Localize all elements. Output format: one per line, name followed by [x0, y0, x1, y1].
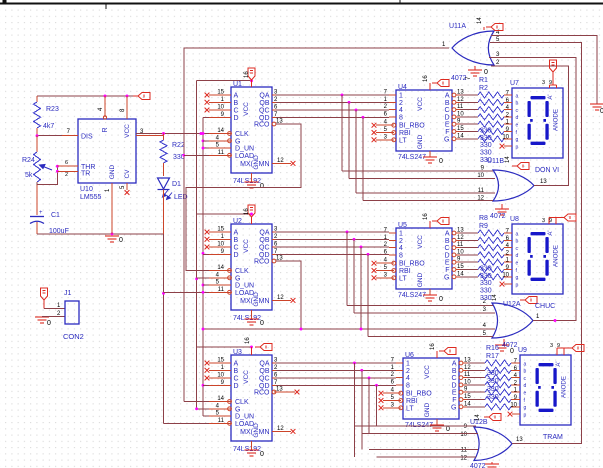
wire VCC to U2 pin16	[197, 213, 252, 215]
svg-text:G: G	[235, 275, 240, 282]
svg-text:QC: QC	[259, 376, 270, 383]
wire U12B input 11	[369, 449, 478, 451]
svg-text:0: 0	[47, 320, 51, 327]
svg-text:RCO: RCO	[254, 122, 270, 129]
ground U11B with 4072 label	[490, 204, 509, 220]
svg-text:11: 11	[218, 150, 225, 156]
svg-text:R: R	[102, 127, 109, 132]
svg-text:4: 4	[406, 375, 410, 382]
resistor R6 row 6	[460, 129, 512, 135]
wire U12B output 13 to U11A in4	[490, 43, 581, 444]
svg-text:D: D	[234, 252, 239, 259]
resistor R18 row 3	[467, 375, 520, 381]
wire CLK U3 from bus	[184, 401, 209, 403]
svg-text:U5: U5	[398, 222, 407, 229]
junction U11A net at LOAD U1	[182, 154, 185, 157]
svg-text:d: d	[516, 253, 519, 259]
wire U1 QD to U4	[276, 116, 389, 118]
power flag U5 pin16	[423, 213, 449, 228]
svg-text:C1: C1	[51, 212, 60, 219]
svg-text:3: 3	[550, 343, 553, 349]
power flag U2	[244, 205, 255, 224]
svg-text:15: 15	[217, 358, 224, 364]
svg-text:CHUC: CHUC	[535, 303, 555, 310]
wire 555 OUT to CLK U1	[136, 133, 209, 135]
svg-text:VCC: VCC	[124, 124, 131, 138]
svg-text:0: 0	[439, 158, 443, 165]
junction VCC U1	[250, 79, 253, 82]
svg-text:D: D	[444, 114, 449, 121]
svg-text:D: D	[234, 383, 239, 390]
svg-text:LOAD: LOAD	[235, 153, 254, 160]
svg-text:e: e	[516, 261, 519, 267]
svg-text:3: 3	[542, 218, 545, 224]
svg-text:B: B	[445, 100, 450, 107]
label U1 74LS192	[233, 178, 261, 185]
power flag U6 pin16	[430, 343, 456, 358]
svg-text:14: 14	[477, 17, 483, 24]
junction LOAD net at U2	[162, 292, 165, 295]
svg-text:D: D	[451, 382, 456, 389]
svg-text:4: 4	[399, 107, 403, 114]
svg-text:330: 330	[480, 288, 492, 295]
svg-text:GND: GND	[109, 164, 116, 179]
wire U11B input 9	[342, 170, 493, 172]
svg-text:330: 330	[480, 280, 492, 287]
svg-text:R8: R8	[479, 215, 488, 222]
connector J1 CON2	[57, 290, 84, 341]
wire U12A output 1 to U11A in3	[489, 57, 576, 320]
svg-text:p: p	[516, 144, 519, 150]
svg-text:G: G	[235, 406, 240, 413]
svg-text:10: 10	[502, 134, 509, 140]
decoder U4 74LS247	[376, 84, 464, 151]
X marks inputs U3	[205, 361, 210, 381]
wire VCC top rail of 555	[37, 95, 135, 97]
label U4 74LS247	[398, 154, 426, 161]
svg-text:U4: U4	[398, 84, 407, 91]
svg-text:GND: GND	[253, 423, 260, 438]
svg-text:CV: CV	[124, 169, 131, 179]
svg-text:12: 12	[460, 456, 467, 462]
power flag U7 anode	[542, 60, 557, 88]
svg-text:14: 14	[505, 156, 511, 163]
junction TR	[56, 170, 59, 173]
svg-text:F: F	[445, 129, 449, 136]
wire THR TR elbow to R24	[37, 166, 57, 184]
svg-text:LT: LT	[406, 405, 414, 412]
svg-text:330: 330	[487, 378, 499, 385]
svg-text:C: C	[234, 376, 239, 383]
svg-text:R2: R2	[479, 85, 488, 92]
svg-text:b: b	[516, 239, 519, 245]
svg-text:B: B	[452, 368, 457, 375]
wire U3 QC down to U12B	[368, 378, 370, 434]
svg-text:A: A	[452, 361, 457, 368]
svg-text:U10: U10	[80, 186, 93, 193]
svg-text:CLK: CLK	[235, 131, 249, 138]
svg-text:A': A'	[548, 230, 554, 235]
caption DONVI	[535, 167, 559, 174]
resistor R2 row 2	[460, 99, 512, 105]
junction D_UN U1	[202, 147, 205, 150]
svg-text:330: 330	[487, 386, 499, 393]
svg-text:g: g	[516, 137, 519, 143]
sheet top border	[0, 0, 603, 9]
svg-text:U2: U2	[233, 218, 242, 225]
wire U3 QC to U6	[276, 377, 396, 379]
svg-text:QB: QB	[259, 237, 269, 244]
or-gate U11A 4072	[442, 23, 500, 66]
svg-text:VCC: VCC	[417, 97, 424, 111]
svg-text:QA: QA	[259, 361, 269, 368]
svg-text:U3: U3	[233, 349, 242, 356]
svg-text:g: g	[516, 275, 519, 281]
svg-text:10: 10	[217, 242, 224, 248]
wire U12A input 3	[354, 312, 495, 314]
caption TRAM	[543, 434, 563, 441]
wire D_UN U3	[203, 415, 209, 417]
junction G U3	[195, 407, 198, 410]
power flag U12A pin14	[492, 294, 537, 304]
svg-text:QC: QC	[259, 245, 270, 252]
X mark dp U7	[500, 144, 512, 149]
svg-text:RBI: RBI	[399, 268, 411, 275]
svg-text:GND: GND	[417, 134, 424, 149]
svg-text:13: 13	[516, 437, 523, 443]
power flag U11A pin14	[477, 17, 503, 31]
svg-text:D: D	[234, 115, 239, 122]
svg-text:15: 15	[217, 90, 224, 96]
wire U2 QC down to U12A	[360, 247, 362, 329]
svg-text:C: C	[451, 375, 456, 382]
svg-text:G: G	[444, 136, 449, 143]
svg-text:CLK: CLK	[235, 399, 249, 406]
svg-text:C: C	[444, 107, 449, 114]
wire U2 QC to U5	[276, 246, 389, 248]
svg-text:U9: U9	[518, 347, 527, 354]
resistor R9 row 2	[460, 237, 512, 243]
svg-text:QC: QC	[259, 108, 270, 115]
X mark RCO U3	[274, 390, 299, 395]
resistor R7 row 7	[460, 136, 512, 142]
wire LOAD U3	[164, 422, 210, 424]
svg-text:G: G	[444, 274, 449, 281]
X mark dp U9	[508, 412, 520, 417]
svg-text:9: 9	[557, 343, 560, 349]
svg-text:VCC: VCC	[417, 235, 424, 249]
wire U2 QB down to U12A	[353, 239, 355, 313]
svg-text:10: 10	[460, 432, 467, 438]
svg-text:a: a	[516, 93, 519, 99]
X mark MX pin U2	[291, 298, 296, 303]
wire U1 QB down to U11B	[348, 102, 350, 178]
power flag J1	[41, 288, 48, 309]
ground under U6	[430, 419, 450, 433]
X marks U6 control pins	[379, 391, 384, 410]
wire D U2 from bus	[203, 253, 209, 255]
svg-text:CON2: CON2	[63, 332, 84, 341]
svg-text:LOAD: LOAD	[235, 290, 254, 297]
svg-text:F: F	[445, 267, 449, 274]
junction OUT at D-net	[200, 132, 203, 135]
svg-text:C: C	[234, 108, 239, 115]
svg-text:330: 330	[480, 273, 492, 280]
svg-text:14: 14	[217, 396, 224, 402]
svg-text:0: 0	[260, 451, 264, 458]
svg-text:2: 2	[65, 172, 68, 178]
svg-text:U7: U7	[510, 80, 519, 87]
svg-text:0: 0	[260, 183, 264, 190]
wire U1 QA down to U11B	[341, 95, 343, 171]
decoder U5 74LS247	[376, 222, 464, 289]
svg-text:DON VI: DON VI	[535, 167, 559, 174]
svg-text:74LS247: 74LS247	[398, 154, 426, 161]
svg-text:VCC: VCC	[243, 102, 250, 116]
svg-text:8: 8	[399, 114, 403, 121]
resistor R5 row 5	[460, 121, 512, 127]
resistor R22	[160, 134, 185, 177]
svg-text:14: 14	[217, 128, 224, 134]
junction OUT at R22	[162, 132, 165, 135]
svg-text:D_UN: D_UN	[235, 283, 254, 290]
wire LOAD net lower vertical	[163, 234, 165, 423]
svg-text:12: 12	[277, 426, 284, 432]
svg-text:11: 11	[461, 448, 468, 454]
svg-text:+: +	[39, 210, 43, 216]
svg-text:16: 16	[244, 208, 250, 215]
svg-text:R16: R16	[486, 345, 499, 352]
wire U3 QA down to U12B	[354, 363, 356, 457]
svg-text:TRAM: TRAM	[543, 434, 563, 441]
svg-text:2: 2	[399, 100, 403, 107]
svg-text:GND: GND	[253, 292, 260, 307]
wire ground rail under 555	[37, 233, 164, 235]
junction top rail at VCC pin	[126, 95, 129, 98]
diode D1 LED	[158, 178, 188, 234]
capacitor C1	[30, 210, 69, 235]
svg-text:QA: QA	[259, 230, 269, 237]
svg-text:a: a	[524, 361, 527, 367]
resistor R20 row 5	[467, 389, 520, 395]
power flag VCC 555	[133, 93, 150, 100]
junction U2 QD	[367, 253, 370, 256]
svg-text:6: 6	[65, 160, 68, 166]
X mark dp U8	[500, 282, 512, 287]
resistor R14 row 7	[460, 274, 512, 280]
junction top rail at R pin	[104, 95, 107, 98]
display U7 7-segment DON VI	[502, 80, 563, 158]
wire D U1 from bus	[203, 116, 209, 118]
svg-text:G: G	[451, 404, 456, 411]
junction U3 QC	[368, 377, 371, 380]
junction VCC U2	[250, 213, 253, 216]
wire G U1 from bus	[203, 140, 209, 142]
wire U1 QC to U4	[276, 109, 389, 111]
label U2 74LS192	[233, 315, 261, 322]
ground under U2	[245, 310, 265, 327]
wire U11A in1 to ground	[491, 36, 597, 104]
ground U12B with 4072 label	[470, 462, 499, 468]
labels resistor network refs	[479, 77, 488, 92]
svg-text:330: 330	[480, 128, 492, 135]
counter U2 74LS192	[209, 218, 291, 310]
resistor R15 row 7	[467, 404, 520, 410]
wire U3 QD to U6	[276, 384, 396, 386]
or-gate U12B 4072	[460, 419, 523, 462]
svg-text:R1: R1	[479, 77, 488, 84]
wire D net vertical	[202, 117, 204, 416]
or-gate U11B 4072	[477, 158, 547, 202]
junction U2 QB	[353, 238, 356, 241]
X marks inputs U2	[205, 230, 210, 250]
svg-text:330: 330	[480, 266, 492, 273]
svg-text:A': A'	[556, 361, 562, 366]
junction U2 QC	[360, 246, 363, 249]
svg-text:LOAD: LOAD	[235, 421, 254, 428]
svg-text:15: 15	[217, 227, 224, 233]
svg-text:CLK: CLK	[235, 268, 249, 275]
wire U12A input 4	[203, 328, 495, 330]
svg-text:DIS: DIS	[81, 134, 93, 141]
svg-text:16: 16	[430, 343, 436, 350]
svg-text:E: E	[452, 390, 457, 397]
svg-text:330: 330	[487, 370, 499, 377]
wire D_UN U2	[203, 284, 209, 286]
resistor R11 row 4	[460, 252, 512, 258]
junction D net U1 G	[202, 139, 205, 142]
svg-text:A': A'	[548, 94, 554, 99]
wire U1 QB to U4	[276, 101, 389, 103]
svg-text:12: 12	[277, 158, 284, 164]
svg-text:330: 330	[480, 142, 492, 149]
svg-text:16: 16	[423, 213, 429, 220]
svg-text:4k7: 4k7	[43, 123, 54, 130]
svg-text:MN: MN	[259, 161, 270, 168]
svg-text:MX(: MX(	[240, 161, 254, 168]
svg-text:g: g	[524, 405, 527, 411]
svg-text:0: 0	[119, 237, 123, 244]
svg-text:5k: 5k	[25, 172, 33, 179]
junction U3 QA	[353, 362, 356, 365]
svg-text:GND: GND	[417, 272, 424, 287]
svg-text:J1: J1	[64, 290, 72, 297]
junction D net at 555 out	[202, 132, 205, 135]
label 4072 U11A	[451, 75, 467, 82]
ground U11A pin7	[466, 66, 488, 80]
junction D net U2 D_UN	[202, 284, 205, 287]
svg-text:R23: R23	[46, 106, 59, 113]
X no-connect CV pin	[125, 190, 130, 195]
svg-text:a: a	[516, 231, 519, 237]
svg-text:U6: U6	[405, 352, 414, 359]
svg-text:e: e	[524, 391, 527, 397]
wire U11B input 12	[363, 199, 493, 201]
svg-text:A: A	[234, 361, 239, 368]
X marks U4 control pins	[372, 123, 377, 142]
svg-text:330: 330	[480, 150, 492, 157]
decoder U6 74LS247	[383, 352, 471, 419]
junction U12A output	[554, 319, 557, 322]
display U8 7-segment CHUC	[502, 216, 563, 294]
labels resistor network refs	[486, 345, 499, 360]
wire U3 QA to U6	[276, 362, 396, 364]
svg-text:TR: TR	[81, 171, 90, 178]
ground 0 at J1	[35, 316, 65, 327]
svg-text:2: 2	[406, 368, 410, 375]
svg-text:p: p	[516, 282, 519, 288]
svg-text:VCC: VCC	[243, 370, 250, 384]
svg-text:BI_RBO: BI_RBO	[399, 261, 425, 268]
op 555 timer U10	[57, 96, 163, 234]
svg-text:4: 4	[399, 245, 403, 252]
wire U2 QA to U5	[276, 231, 389, 233]
resistor R13 row 6	[460, 267, 512, 273]
svg-text:e: e	[516, 123, 519, 129]
svg-text:d: d	[516, 115, 519, 121]
counter U1 74LS192	[209, 81, 291, 173]
svg-text:10: 10	[502, 272, 509, 278]
svg-text:E: E	[445, 122, 450, 129]
wire U2 RCO to U12A	[276, 261, 301, 329]
junction U1 QC	[355, 109, 358, 112]
wire G U3 from bus	[197, 408, 209, 410]
wire U3 QD down to U12B	[376, 385, 378, 426]
ground under U4	[423, 151, 443, 165]
svg-text:B: B	[234, 100, 239, 107]
labels resistor network values 330	[480, 128, 492, 164]
svg-text:R17: R17	[486, 353, 499, 360]
svg-text:3: 3	[542, 80, 545, 86]
svg-text:4072: 4072	[502, 342, 518, 349]
svg-text:14: 14	[492, 294, 498, 301]
svg-text:R9: R9	[479, 223, 488, 230]
svg-text:0: 0	[446, 426, 450, 433]
wire U11B output 13 to U11A in2	[491, 66, 569, 185]
X mark MX pin U1	[291, 161, 296, 166]
wire G U2 from bus	[197, 277, 209, 279]
svg-text:b: b	[524, 369, 527, 375]
svg-text:MN: MN	[259, 429, 270, 436]
svg-text:MX(: MX(	[240, 429, 254, 436]
svg-text:U1: U1	[233, 81, 242, 88]
label U10 LM555	[80, 186, 102, 201]
junction D net U3 D	[202, 384, 205, 387]
label U5 74LS247	[398, 292, 426, 299]
wire U11A output net vertical	[184, 48, 449, 402]
svg-text:ANODE: ANODE	[553, 245, 560, 267]
svg-text:10: 10	[510, 402, 517, 408]
resistor R8 row 1	[460, 230, 512, 236]
junction U1 QD	[362, 116, 365, 119]
junction LOAD U2 at D net	[202, 291, 205, 294]
wire U1 RCO to CLK U2	[186, 124, 301, 271]
svg-text:BI_RBO: BI_RBO	[406, 391, 432, 398]
svg-text:D1: D1	[172, 181, 181, 188]
svg-text:A: A	[445, 231, 450, 238]
svg-text:GND: GND	[253, 155, 260, 170]
svg-text:0: 0	[484, 69, 488, 76]
wire U12A input 5	[368, 336, 493, 338]
junction input4 at RCO net	[300, 328, 303, 331]
svg-text:QA: QA	[259, 93, 269, 100]
resistor R10 row 3	[460, 245, 512, 251]
svg-text:0: 0	[510, 348, 514, 355]
wire U2 QD down to U12A	[367, 254, 369, 336]
ground under U3	[245, 441, 265, 458]
svg-text:16: 16	[245, 337, 251, 344]
svg-text:2: 2	[399, 238, 403, 245]
